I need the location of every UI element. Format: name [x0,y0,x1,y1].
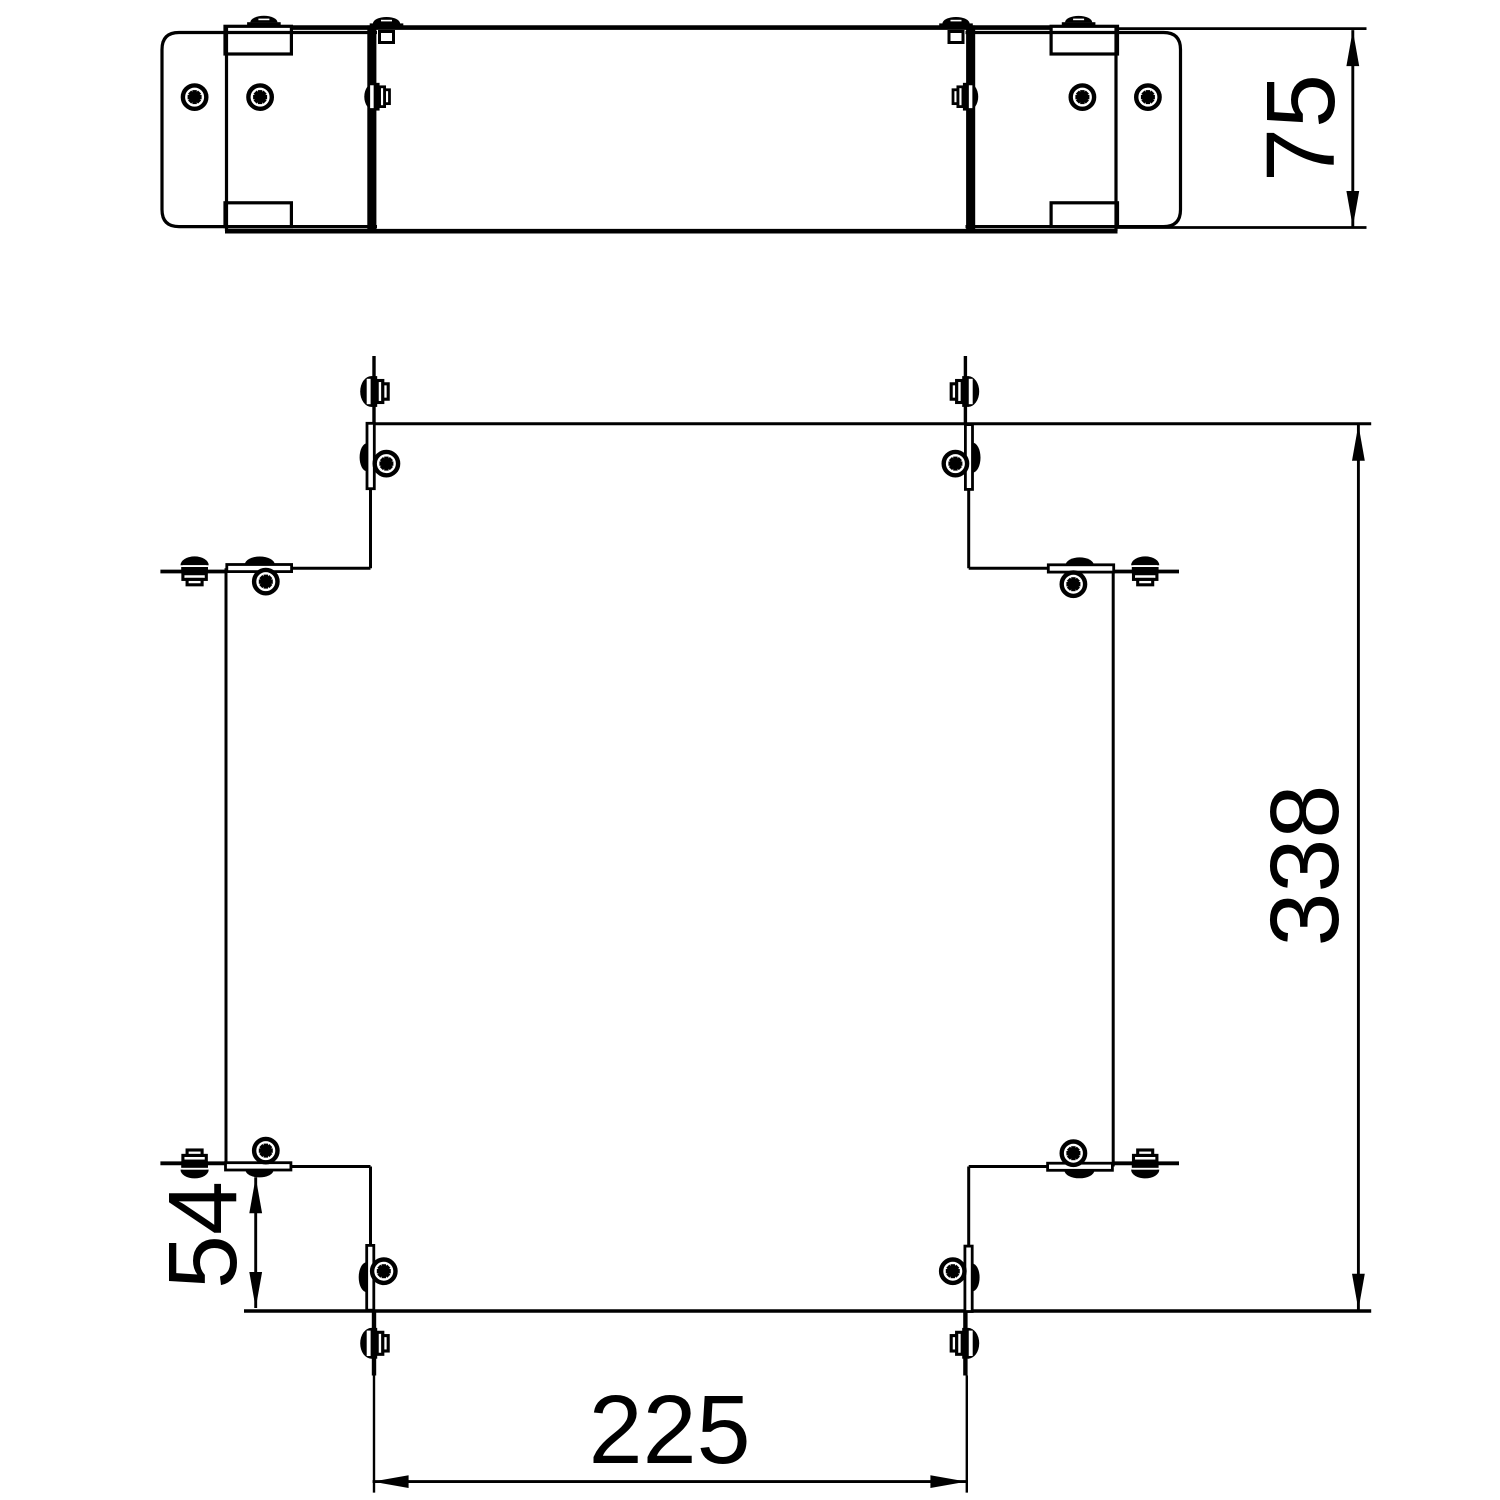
dim-75 top extension line [1117,27,1367,30]
plate right edge [1112,568,1115,1166]
screw C1 square nut below channel edge [380,32,394,43]
screw P4 dome side view [973,443,981,473]
dim-225 dimension line [373,1480,967,1483]
right end cap outline (rounded cover plate) [966,33,1181,227]
screw T3 on bottom-left tongue [360,1328,388,1359]
top-right tongue rail edge [964,356,967,424]
top-left notch vertical edge [369,424,372,569]
screw P6 pozidriv head [1062,1142,1085,1165]
screw D2 side view on right partition [953,83,978,111]
screw D1 side view on left partition [364,83,389,111]
tray channel bottom edge (side view) [225,229,1118,234]
dim-54 upper arrowhead [249,1177,262,1213]
dim-225 right extension line [966,1376,968,1493]
screw P6 dome side view [1064,1170,1094,1178]
bottom-right corner vertical connector plate [965,1246,972,1311]
plate top edge with dim-338 extension [371,422,1372,425]
top-right notch vertical edge [967,424,970,569]
screw T5 on left-top tongue [181,556,209,584]
screw T2 on top-right tongue [951,376,979,407]
bottom-left notch vertical edge [369,1167,372,1312]
screw T1 on top-left tongue [360,376,388,407]
screw A1 pozidriv head [183,85,206,108]
tray channel top edge (side view) [225,25,1118,30]
svg-text:225: 225 [589,1375,751,1484]
right partition end plate (black bar) [966,25,975,231]
top-left corner vertical connector plate [367,423,374,488]
right clamp bracket web [1114,26,1117,231]
left clamp bracket top flange [225,26,291,54]
screw B1 dome head on left bracket [247,22,281,26]
screw P1 pozidriv head [375,452,398,475]
dim-54 dimension line [254,1177,257,1308]
left partition end plate (black bar) [367,25,376,231]
screw P2 pozidriv head [254,570,277,593]
bottom-right notch vertical edge [967,1167,970,1312]
dim-225 right arrowhead [930,1475,966,1488]
top-right notch step edge [969,567,1113,570]
top-left tongue rail edge [372,356,375,424]
right-top tongue rail edge [1113,570,1179,574]
dim-54 lower arrowhead [249,1272,262,1308]
svg-text:54: 54 [148,1181,257,1289]
plate left edge [225,568,228,1166]
left-top tongue rail edge [160,570,226,574]
bottom-left notch step edge [226,1165,371,1168]
screw P2 dome side view [245,557,275,565]
screw B2 dome head on right bracket [1062,22,1096,26]
screw P4 pozidriv head [944,452,967,475]
bottom-right corner horizontal connector plate [1048,1163,1113,1170]
dim-75 lower arrowhead [1346,191,1359,227]
left end cap outline (rounded cover plate) [162,33,377,227]
screw T8 on right-bottom tongue [1131,1150,1159,1178]
top-right corner vertical connector plate [965,425,972,490]
screw T6 on left-bottom tongue [181,1150,209,1178]
bottom-left corner vertical connector plate [367,1245,374,1310]
bottom-right tongue rail edge [963,1311,967,1376]
screw A4 pozidriv head [1136,85,1159,108]
screw P7 pozidriv head [254,1139,277,1162]
screw P7 dome side view [246,1170,274,1177]
screw A2 pozidriv head [248,85,271,108]
svg-text:338: 338 [1250,785,1359,947]
screw T7 on right-top tongue [1131,556,1159,584]
top-left corner horizontal connector plate [227,565,292,572]
screw P5 dome side view [972,1264,979,1292]
dim-338 lower arrowhead [1352,1274,1365,1310]
top-left notch step edge [226,567,371,570]
dim-225 left extension line [373,1376,375,1493]
top-right corner horizontal connector plate [1048,565,1113,572]
svg-text:75: 75 [1246,74,1355,182]
bottom-left tongue rail edge [372,1311,376,1376]
screw P8 dome side view [359,1262,367,1292]
dim-75 upper arrowhead [1346,30,1359,66]
dim-75 bottom extension line [1117,226,1367,229]
screw P5 pozidriv head [941,1260,964,1283]
dim-338 dimension line [1357,424,1360,1309]
bottom-right notch step edge [969,1165,1113,1168]
screw C1 dome head on left partition [370,23,404,27]
screw P8 pozidriv head [372,1260,395,1283]
plate bottom edge with dim extensions [244,1309,1371,1312]
screw A3 pozidriv head [1071,85,1094,108]
right clamp bracket bottom flange [1051,203,1117,227]
screw P1 dome side view [360,443,367,471]
screw C2 dome head on right partition [939,23,973,27]
screw P3 pozidriv head [1062,573,1085,596]
left clamp bracket bottom flange [225,203,291,227]
bottom-left corner horizontal connector plate [226,1163,291,1170]
left-bottom tongue rail edge [160,1161,226,1165]
screw T4 on bottom-right tongue [951,1328,979,1359]
dim-225 left arrowhead [373,1475,409,1488]
screw C2 square nut below channel edge [949,32,963,43]
dim-338 upper arrowhead [1352,425,1365,461]
right clamp bracket top flange [1051,26,1117,54]
dim-75 dimension line [1351,30,1354,227]
screw P3 dome side view [1066,557,1094,564]
right-bottom tongue rail edge [1113,1161,1179,1165]
left clamp bracket web [225,26,228,231]
